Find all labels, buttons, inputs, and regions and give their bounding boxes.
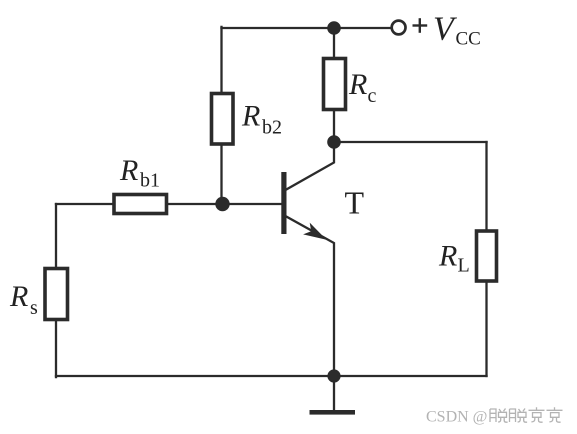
- wire RL bottom lead: [485, 281, 487, 376]
- wire bottom rail: [56, 375, 487, 377]
- watermark glyph ke2: [547, 407, 563, 422]
- svg-text:T: T: [345, 185, 365, 221]
- svg-text:b2: b2: [262, 117, 282, 139]
- watermark glyph ke1: [529, 407, 545, 422]
- wire Rb2 bottom lead: [220, 144, 222, 204]
- resistor Rb1: [114, 195, 167, 214]
- svg-text:L: L: [458, 255, 470, 277]
- node collector: [327, 135, 341, 149]
- transistor T emitter arrowhead: [303, 223, 326, 240]
- svg-text:CSDN @: CSDN @: [426, 409, 487, 426]
- resistor Rc: [324, 59, 346, 110]
- wire ground stub: [333, 376, 335, 410]
- label +Vcc plus sign: [413, 18, 428, 33]
- svg-text:R: R: [241, 100, 260, 133]
- node top rail / Rc: [327, 21, 341, 35]
- wire base right segment: [167, 203, 283, 205]
- wire collector node to RL: [334, 141, 487, 143]
- node emitter / bottom rail: [327, 369, 340, 382]
- node base: [215, 197, 229, 211]
- svg-text:R: R: [348, 68, 367, 101]
- wire collector diagonal: [285, 142, 335, 191]
- svg-text:V: V: [433, 11, 458, 48]
- watermark glyph tuo1: [490, 409, 508, 423]
- wire top rail: [222, 27, 335, 29]
- svg-text:R: R: [438, 240, 457, 273]
- wire to +Vcc terminal: [334, 27, 392, 29]
- ground bar: [310, 410, 356, 415]
- wire base left segment: [56, 203, 114, 205]
- wire left vertical upper (Rs top lead): [55, 204, 57, 269]
- svg-text:R: R: [119, 154, 138, 187]
- terminal circle +Vcc: [392, 21, 406, 35]
- wire RL top lead: [485, 142, 487, 231]
- wire emitter diagonal: [285, 216, 335, 377]
- resistor Rb2: [212, 94, 234, 145]
- transistor T base bar: [281, 172, 286, 234]
- resistor Rs: [45, 269, 68, 320]
- resistor RL: [477, 231, 497, 281]
- wire left vertical lower (Rs bottom lead): [55, 320, 57, 378]
- wire Rc top lead: [333, 28, 335, 59]
- wire Rc bottom lead: [333, 110, 335, 143]
- wire Rb2 top lead: [220, 27, 222, 94]
- svg-text:b1: b1: [140, 170, 160, 192]
- watermark glyph tuo2: [510, 409, 528, 423]
- svg-text:CC: CC: [456, 29, 481, 50]
- svg-text:c: c: [368, 85, 377, 107]
- svg-text:R: R: [9, 280, 28, 313]
- svg-text:s: s: [30, 297, 38, 319]
